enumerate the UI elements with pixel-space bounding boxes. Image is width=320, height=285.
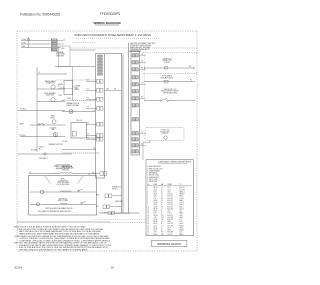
svg-text:SW-1: SW-1 — [180, 215, 184, 217]
svg-text:CAUTION: DISCONNECT ELECTRIC: CAUTION: DISCONNECT ELECTRIC — [130, 42, 156, 45]
svg-text:02/14: 02/14 — [15, 265, 23, 269]
svg-text:BROIL ELEMENT: BROIL ELEMENT — [44, 93, 56, 95]
svg-text:DOOR LOCK: DOOR LOCK — [161, 130, 170, 132]
svg-text:BRL-1: BRL-1 — [180, 196, 184, 198]
svg-text:DOOR LOCK MOTOR: DOOR LOCK MOTOR — [55, 164, 69, 166]
svg-text:SURFACE LT: SURFACE LT — [112, 186, 121, 189]
svg-text:P9: P9 — [161, 206, 163, 208]
svg-text:19: 19 — [147, 225, 149, 227]
svg-text:W-18: W-18 — [154, 211, 157, 213]
svg-text:TB-1: TB-1 — [168, 187, 171, 189]
svg-text:P3: P3 — [161, 198, 163, 200]
svg-text:1: 1 — [147, 187, 148, 189]
svg-text:R-18: R-18 — [154, 225, 157, 227]
svg-text:SW-5: SW-5 — [168, 230, 172, 232]
svg-text:2- WIRE COLOR CODE: 2- WIRE COLOR CODE — [147, 168, 163, 170]
svg-text:P-3: P-3 — [87, 80, 89, 82]
svg-text:18: 18 — [147, 223, 149, 225]
svg-text:EOC-P3: EOC-P3 — [168, 198, 173, 200]
svg-text:BU-18: BU-18 — [154, 215, 158, 217]
svg-text:N: N — [161, 230, 162, 232]
svg-text:EOC-P8: EOC-P8 — [168, 204, 173, 206]
svg-text:SWITCH N.O.: SWITCH N.O. — [58, 198, 68, 200]
svg-text:8: 8 — [147, 202, 148, 204]
svg-text:W-18: W-18 — [154, 204, 157, 206]
svg-text:SW-4: SW-4 — [180, 227, 184, 229]
svg-text:SHOWN UNLOCKED: SHOWN UNLOCKED — [163, 93, 177, 95]
svg-text:17: 17 — [147, 221, 149, 223]
svg-text:SW-3: SW-3 — [168, 221, 172, 223]
svg-text:P-6: P-6 — [141, 97, 143, 99]
svg-text:DLM-2: DLM-2 — [180, 208, 184, 210]
svg-text:L2: L2 — [161, 191, 163, 193]
svg-text:L2: L2 — [161, 225, 163, 227]
svg-text:L-6: L-6 — [93, 148, 95, 150]
svg-text:P-9: P-9 — [87, 107, 89, 109]
svg-text:SWITCH SHOWN IN NORMAL POSITIO: SWITCH SHOWN IN NORMAL POSITION — [45, 207, 72, 210]
svg-text:10: 10 — [147, 206, 149, 208]
svg-text:23: 23 — [147, 234, 149, 236]
svg-text:R-10: R-10 — [154, 196, 157, 198]
svg-text:EOC-PF: EOC-PF — [168, 223, 173, 225]
svg-text:LATCH SW: LATCH SW — [115, 200, 123, 203]
svg-text:GA: GA — [161, 183, 163, 186]
svg-text:L2-30: L2-30 — [58, 95, 62, 97]
svg-text:EOC-PC: EOC-PC — [168, 215, 173, 217]
svg-text:L-2: L-2 — [62, 100, 64, 102]
svg-text:RELAY: RELAY — [58, 83, 63, 86]
svg-text:1- WIRE GAUGE NO.: 1- WIRE GAUGE NO. — [147, 165, 162, 168]
svg-text:COOLING: COOLING — [50, 127, 58, 129]
svg-text:TOD-2: TOD-2 — [168, 213, 172, 215]
svg-text:5: 5 — [147, 196, 148, 198]
svg-text:Y-18: Y-18 — [154, 232, 157, 234]
svg-text:Y-18: Y-18 — [154, 198, 157, 200]
svg-text:L1: L1 — [161, 221, 163, 223]
svg-text:EOC-K2: EOC-K2 — [168, 196, 173, 198]
svg-text:MOTOR SWITCH CIRCUIT: MOTOR SWITCH CIRCUIT — [161, 91, 179, 93]
svg-text:THIS UNIT, WHICH IS THE PROPER: THIS UNIT, WHICH IS THE PROPERTY OF THE … — [19, 248, 88, 251]
svg-text:P-1 6(N): P-1 6(N) — [31, 150, 37, 152]
svg-text:P-2: P-2 — [189, 66, 192, 68]
svg-text:BK-18: BK-18 — [154, 227, 158, 229]
svg-text:L-1: L-1 — [63, 40, 65, 42]
svg-text:HSL-2: HSL-2 — [180, 223, 184, 225]
svg-text:GY-18: GY-18 — [154, 202, 158, 204]
svg-text:TB-3: TB-3 — [168, 191, 171, 193]
svg-text:15: 15 — [147, 217, 149, 219]
svg-text:SW-LT: SW-LT — [20, 123, 25, 125]
svg-text:R-18: R-18 — [154, 213, 157, 215]
svg-text:HELD CLOSED: HELD CLOSED — [58, 200, 68, 202]
svg-text:LINE: LINE — [75, 87, 78, 89]
svg-text:6: 6 — [147, 198, 148, 200]
svg-text:P-5: P-5 — [87, 89, 89, 91]
svg-text:L-2: L-2 — [62, 87, 64, 89]
svg-text:TB-1: TB-1 — [168, 227, 171, 229]
svg-text:BK-18: BK-18 — [154, 221, 158, 223]
svg-text:CIRCUIT: CIRCUIT — [164, 62, 170, 64]
svg-text:TOD 1-2: TOD 1-2 — [39, 147, 45, 149]
svg-text:TO: TO — [180, 184, 183, 186]
svg-text:9: 9 — [147, 204, 148, 206]
svg-text:P-8: P-8 — [87, 134, 89, 136]
svg-text:EOC-P5: EOC-P5 — [168, 200, 173, 202]
svg-text:L-8: L-8 — [141, 54, 143, 56]
svg-text:P-7: P-7 — [87, 98, 89, 100]
svg-text:L2-3D: L2-3D — [67, 98, 72, 100]
svg-text:P-2 4(L): P-2 4(L) — [62, 141, 68, 143]
svg-text:OVEN CIRCUIT DIAGRAMS AT MODEL: OVEN CIRCUIT DIAGRAMS AT MODEL/SERIAL BR… — [74, 34, 151, 37]
svg-text:EOC-P7: EOC-P7 — [168, 202, 173, 204]
svg-text:10A: 10A — [106, 88, 109, 91]
svg-text:(RES-): (RES-) — [61, 178, 66, 180]
svg-text:COMPONENT & WIRING IDENTIFICAT: COMPONENT & WIRING IDENTIFICATION — [158, 161, 192, 164]
svg-text:K-1: K-1 — [58, 86, 60, 88]
svg-text:P15: P15 — [161, 219, 164, 221]
svg-text:L1: L1 — [161, 187, 163, 189]
svg-text:L1 BK: L1 BK — [22, 39, 26, 41]
svg-text:OVEN DOOR LOCK: OVEN DOOR LOCK — [163, 89, 176, 91]
svg-text:W-10: W-10 — [154, 189, 157, 191]
svg-text:L2: L2 — [62, 43, 64, 45]
svg-text:P-1: P-1 — [190, 80, 193, 82]
svg-text:N: N — [161, 211, 162, 213]
svg-text:14: 14 — [147, 215, 149, 217]
svg-text:CONVECTION: CONVECTION — [162, 58, 172, 60]
svg-text:3: 3 — [147, 191, 148, 193]
svg-text:21: 21 — [147, 230, 149, 232]
svg-text:EOC-PJ: EOC-PJ — [168, 234, 173, 236]
svg-text:L1: L1 — [88, 173, 90, 175]
svg-text:P-5: P-5 — [141, 68, 143, 70]
svg-text:L1: L1 — [161, 194, 163, 196]
svg-text:2600W 240V: 2600W 240V — [46, 83, 54, 85]
svg-text:SW N.O.: SW N.O. — [112, 188, 118, 190]
svg-text:P12: P12 — [161, 215, 164, 217]
svg-text:LIGHT: LIGHT — [50, 117, 54, 119]
svg-text:WIRE: WIRE — [154, 184, 158, 186]
svg-text:L-N: L-N — [87, 123, 89, 125]
svg-text:L2: L2 — [161, 213, 163, 215]
svg-text:P16: P16 — [161, 232, 164, 234]
svg-text:HOT SURFACE: HOT SURFACE — [162, 75, 172, 78]
svg-text:P-8: P-8 — [87, 138, 89, 140]
svg-text:SWITCH SHOWN: SWITCH SHOWN — [57, 182, 69, 184]
svg-text:L1: L1 — [29, 172, 31, 174]
svg-text:7- PLUG CONN: 7- PLUG CONN — [147, 179, 157, 181]
svg-text:MOUNTING: MOUNTING — [56, 55, 65, 57]
svg-text:L2 BK: L2 BK — [22, 42, 26, 44]
svg-text:LT-2: LT-2 — [180, 219, 183, 221]
svg-text:LT-3: LT-3 — [180, 221, 183, 223]
svg-text:FFEW3025PS: FFEW3025PS — [100, 12, 120, 16]
svg-text:DLM-3: DLM-3 — [180, 230, 184, 232]
svg-text:N: N — [161, 223, 162, 225]
svg-text:DLM-1: DLM-1 — [180, 204, 184, 206]
svg-text:SW-2: SW-2 — [180, 217, 184, 219]
svg-text:FROM: FROM — [168, 184, 173, 186]
svg-text:C-8: C-8 — [141, 83, 143, 85]
svg-text:EOC-P1: EOC-P1 — [180, 187, 185, 189]
svg-text:7: 7 — [147, 200, 148, 202]
svg-text:P-14: P-14 — [96, 194, 99, 196]
svg-text:4: 4 — [147, 194, 148, 196]
svg-text:GY-18: GY-18 — [154, 219, 158, 221]
svg-text:L1-CAVITY LT: L1-CAVITY LT — [99, 211, 108, 214]
svg-text:DISCONNECT POWER BEFORE SERVIC: DISCONNECT POWER BEFORE SERVICING UNIT — [38, 211, 72, 213]
svg-text:MOTOR 120V: MOTOR 120V — [160, 131, 169, 133]
svg-text:MTR-1: MTR-1 — [180, 225, 184, 227]
svg-text:EOC-P2: EOC-P2 — [180, 189, 185, 191]
svg-text:BK-18: BK-18 — [154, 208, 158, 210]
svg-text:19: 19 — [111, 266, 115, 270]
svg-text:NO: NO — [147, 184, 150, 186]
svg-text:OVEN: OVEN — [50, 116, 54, 118]
svg-text:1: 1 — [170, 99, 171, 101]
svg-text:Y-18: Y-18 — [154, 217, 157, 219]
svg-text:BU-18: BU-18 — [154, 200, 158, 202]
svg-text:P-4: P-4 — [114, 89, 116, 91]
svg-text:2: 2 — [147, 189, 148, 191]
svg-text:(P-N: (P-N — [62, 48, 65, 50]
svg-text:TERMINAL: TERMINAL — [56, 51, 63, 54]
svg-text:CIRCUIT: CIRCUIT — [162, 133, 168, 135]
svg-text:EOC-P9: EOC-P9 — [168, 206, 173, 208]
svg-text:C-2: C-2 — [141, 132, 143, 134]
svg-text:BAKE ELEMENT: BAKE ELEMENT — [45, 80, 56, 83]
svg-text:L2: L2 — [161, 196, 163, 198]
svg-text:EOC-PD: EOC-PD — [168, 217, 173, 219]
svg-text:DOUBLE: DOUBLE — [75, 86, 81, 88]
svg-text:BU-18: BU-18 — [154, 234, 158, 236]
svg-text:BK-10: BK-10 — [154, 187, 158, 189]
svg-text:22: 22 — [147, 232, 149, 234]
svg-text:J-9: J-9 — [141, 61, 143, 63]
svg-text:TOD-1: TOD-1 — [180, 202, 184, 204]
svg-text:EOC-PH: EOC-PH — [168, 232, 173, 234]
svg-text:16: 16 — [147, 219, 149, 221]
svg-text:N: N — [161, 204, 162, 206]
svg-text:L1: L1 — [161, 208, 163, 210]
svg-text:THERMAL SWITCH: THERMAL SWITCH — [66, 102, 79, 105]
svg-text:P18: P18 — [161, 234, 164, 236]
svg-text:TB-2: TB-2 — [168, 211, 171, 213]
svg-text:P7: P7 — [161, 202, 163, 204]
svg-text:3- CONN NUMBER: 3- CONN NUMBER — [147, 170, 160, 172]
svg-text:8- SEE NOTES: 8- SEE NOTES — [147, 181, 157, 183]
svg-text:3400W 240V: 3400W 240V — [46, 95, 54, 97]
svg-text:LT-SW: LT-SW — [180, 198, 185, 200]
svg-text:L1: L1 — [161, 227, 163, 229]
svg-text:R-10: R-10 — [154, 191, 157, 193]
svg-text:12: 12 — [147, 211, 149, 213]
svg-text:HSL-1: HSL-1 — [180, 206, 184, 208]
svg-text:P5: P5 — [161, 200, 163, 202]
svg-text:EOC-PG: EOC-PG — [168, 225, 173, 227]
svg-text:L-2: L-2 — [93, 110, 95, 112]
svg-text:W-18: W-18 — [154, 223, 157, 225]
svg-text:13: 13 — [147, 213, 149, 215]
svg-text:EOC-K1: EOC-K1 — [168, 194, 173, 196]
svg-text:WIRING DIAGRAM: WIRING DIAGRAM — [93, 21, 121, 25]
svg-text:N BK: N BK — [22, 46, 26, 48]
svg-text:W-18: W-18 — [154, 230, 157, 232]
svg-text:N: N — [161, 189, 162, 191]
svg-text:Publication No. 5995443325: Publication No. 5995443325 — [20, 13, 60, 17]
svg-text:SW-OVEN LT: SW-OVEN LT — [39, 158, 48, 160]
svg-text:THERMO DISC 110C: THERMO DISC 110C — [49, 144, 64, 146]
svg-text:11: 11 — [147, 208, 149, 210]
svg-text:P-15: P-15 — [96, 206, 99, 208]
svg-text:DOOR UNLOCKED: DOOR UNLOCKED — [57, 184, 70, 186]
svg-text:20: 20 — [147, 227, 149, 229]
svg-text:EOC-PE: EOC-PE — [168, 219, 173, 221]
svg-text:BK-10: BK-10 — [154, 194, 158, 196]
svg-text:OR-18: OR-18 — [154, 206, 158, 208]
svg-text:TOD 4-3: TOD 4-3 — [76, 120, 82, 122]
svg-text:5- SPLICE CONN: 5- SPLICE CONN — [147, 175, 158, 177]
svg-text:TB-2: TB-2 — [168, 189, 171, 191]
svg-text:P14: P14 — [161, 217, 164, 219]
svg-text:LT-4: LT-4 — [180, 232, 183, 234]
svg-text:LT-1: LT-1 — [180, 211, 183, 213]
svg-text:LOCK MOTOR: LOCK MOTOR — [58, 180, 68, 182]
svg-text:30805063 01/2007: 30805063 01/2007 — [157, 242, 182, 246]
